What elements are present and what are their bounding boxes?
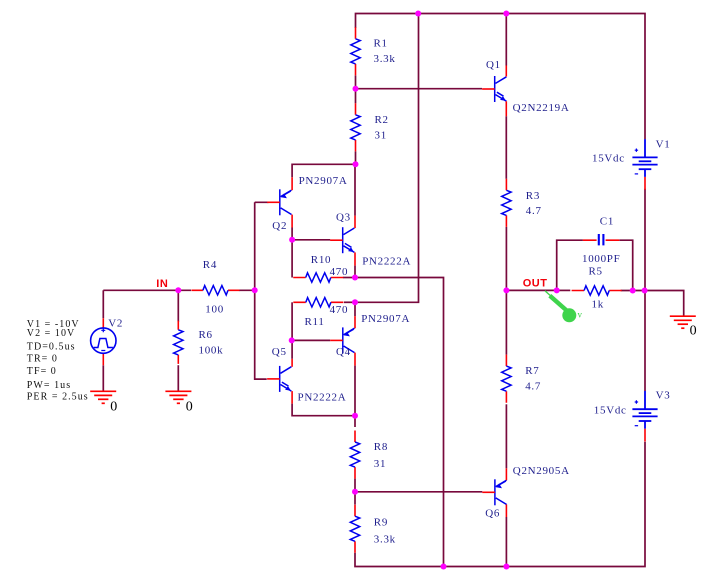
transistor Q4 PN2907A	[330, 327, 354, 353]
wire node492 to Q6 base	[355, 491, 482, 493]
svg-text:470: 470	[330, 304, 349, 316]
junction	[503, 11, 509, 17]
svg-text:3.3k: 3.3k	[374, 53, 396, 65]
junction	[352, 299, 358, 305]
wire node to Q1 base	[356, 88, 483, 90]
svg-text:0: 0	[690, 323, 697, 338]
wire OUT node to C1/R5 node	[506, 289, 556, 291]
svg-text:15Vdc: 15Vdc	[594, 405, 627, 417]
svg-text:TF= 0: TF= 0	[27, 366, 57, 377]
transistor Q1 Q2N2219A	[482, 76, 506, 102]
svg-text:Q3: Q3	[336, 211, 351, 223]
svg-text:R7: R7	[525, 365, 539, 377]
transistor Q5 PN2222A	[267, 366, 291, 392]
svg-text:OUT: OUT	[523, 278, 548, 290]
svg-text:4.7: 4.7	[526, 205, 542, 217]
wire R3 bottom to OUT node	[505, 227, 507, 291]
svg-text:V1: V1	[656, 139, 671, 151]
svg-text:Q2N2905A: Q2N2905A	[513, 465, 570, 477]
junction	[353, 86, 359, 92]
wire Q3 collector from node164	[354, 164, 356, 215]
source V2	[91, 318, 116, 365]
svg-text:PN2907A: PN2907A	[299, 175, 348, 187]
junction	[353, 161, 359, 167]
svg-text:IN: IN	[156, 278, 168, 290]
svg-text:V3: V3	[656, 390, 671, 402]
wire Q4 collector down to node415	[354, 366, 356, 416]
junction	[441, 564, 447, 570]
wire R9 top	[354, 492, 356, 505]
resistor R3	[502, 179, 511, 227]
pin Q4 collector	[354, 353, 356, 366]
pin Q5 emitter	[291, 391, 293, 404]
junction	[175, 287, 181, 293]
wire R10 right to node	[343, 277, 355, 279]
pin Q2 collector	[291, 215, 293, 228]
svg-text:31: 31	[374, 458, 386, 470]
svg-text:TR= 0: TR= 0	[27, 354, 58, 365]
probe V marker	[545, 291, 583, 323]
wire node240 down to R10	[291, 240, 293, 278]
junction	[554, 287, 560, 293]
wire Q6 collector to bottom rail	[505, 517, 507, 567]
wire Q2 base vertical to Q5 base	[255, 202, 269, 379]
svg-text:0: 0	[186, 400, 193, 415]
wire R4 to left vertical	[239, 289, 255, 291]
wire right rail between V1 and V3	[644, 189, 646, 391]
resistor R2	[351, 103, 360, 151]
svg-text:R11: R11	[305, 316, 325, 328]
pin Q6 emitter	[505, 468, 507, 480]
pin Q3 emitter	[354, 252, 356, 265]
pin Q3 collector	[354, 216, 356, 229]
wire Q6 emitter up to R7	[505, 404, 507, 468]
resistor R8	[350, 431, 359, 479]
svg-text:PW= 1us: PW= 1us	[27, 380, 71, 391]
wire R6 bottom to ground	[177, 365, 179, 391]
wire node302 to Q4 emitter	[354, 302, 356, 316]
resistor R9	[350, 505, 359, 553]
wire R2 bottom to node164	[355, 151, 357, 164]
junction	[503, 564, 509, 570]
ground	[670, 316, 696, 328]
junction	[252, 287, 258, 293]
svg-text:Q4: Q4	[336, 346, 351, 358]
svg-text:R4: R4	[203, 259, 217, 271]
wire node164 to Q2 emitter	[292, 164, 355, 177]
svg-text:v: v	[578, 310, 583, 320]
wire C1 right to R5 right node	[619, 240, 632, 290]
svg-text:R1: R1	[374, 38, 388, 50]
wire node277 right and down to bottom rail	[355, 278, 444, 567]
resistor R10	[293, 273, 343, 282]
wire R5 left stub	[557, 289, 571, 291]
svg-text:R10: R10	[311, 254, 331, 266]
junction	[289, 237, 295, 243]
svg-text:Q6: Q6	[485, 508, 500, 520]
resistor R1	[351, 27, 360, 75]
svg-text:100: 100	[205, 304, 224, 316]
pin Q1 collector	[505, 66, 507, 77]
svg-text:PN2222A: PN2222A	[298, 391, 347, 403]
wire R5 right to rail and ground	[621, 291, 684, 317]
wire node340 to Q4 base	[292, 339, 331, 341]
svg-text:V2: V2	[108, 317, 123, 329]
svg-text:1000PF: 1000PF	[582, 253, 620, 265]
pin Q1 emitter	[505, 101, 507, 116]
resistor R11	[293, 298, 343, 307]
junction	[630, 288, 636, 294]
wire R8 to node492	[354, 479, 356, 492]
junction	[415, 11, 421, 17]
svg-text:3.3k: 3.3k	[374, 534, 396, 546]
svg-text:R6: R6	[199, 329, 213, 341]
wire R9 bottom + bottom rail	[355, 442, 645, 567]
resistor R5	[572, 286, 622, 295]
transistor Q3 PN2222A	[330, 227, 354, 253]
wire top rail	[356, 14, 646, 140]
pin Q2 emitter	[291, 177, 293, 190]
ground	[165, 391, 191, 403]
svg-text:Q2: Q2	[272, 220, 287, 232]
wire V2 top	[102, 290, 104, 318]
svg-text:PN2222A: PN2222A	[362, 255, 411, 267]
svg-text:Q1: Q1	[486, 59, 501, 71]
svg-text:R3: R3	[526, 190, 540, 202]
svg-text:4.7: 4.7	[525, 381, 541, 393]
junction	[503, 287, 509, 293]
wire V2 bottom to ground	[102, 365, 104, 391]
ground	[90, 391, 116, 403]
transistor Q2 PN2907A	[267, 189, 291, 215]
junction	[289, 337, 295, 343]
svg-text:0: 0	[110, 400, 117, 415]
svg-text:100k: 100k	[199, 344, 224, 356]
svg-text:C1: C1	[600, 215, 614, 227]
wire OUT node down to R7	[505, 290, 507, 354]
junction	[352, 275, 358, 281]
svg-text:R9: R9	[374, 517, 388, 529]
wire Q5 collector to node340	[291, 340, 293, 358]
svg-text:Q2N2219A: Q2N2219A	[513, 102, 570, 114]
resistor R6	[174, 321, 183, 364]
wire Q3 emitter to node277	[354, 266, 356, 278]
svg-text:PER = 2.5us: PER = 2.5us	[27, 392, 89, 403]
svg-text:V2 = 10V: V2 = 10V	[27, 328, 75, 339]
wire Q1 emitter down to R3	[505, 116, 507, 179]
svg-text:R2: R2	[375, 114, 389, 126]
junction	[352, 413, 358, 419]
wire IN horizontal	[103, 289, 191, 291]
capacitor C1	[583, 234, 619, 245]
svg-text:Q5: Q5	[272, 346, 287, 358]
svg-text:R5: R5	[589, 266, 603, 278]
wire R1 bottom to node	[355, 76, 357, 104]
wire R11 right to node302	[344, 301, 355, 303]
wire node240 to Q3 base	[292, 239, 330, 241]
svg-text:31: 31	[375, 129, 387, 141]
pin Q4 emitter	[354, 316, 356, 328]
svg-text:470: 470	[330, 266, 349, 278]
svg-text:R8: R8	[374, 441, 388, 453]
wire C1 branch	[557, 240, 583, 290]
wire R11 left elbow to node340	[291, 302, 293, 340]
wire top dot down x418 to node302	[355, 14, 419, 303]
junction	[642, 288, 648, 294]
source V3	[632, 391, 657, 429]
wire Q5 emitter to node415	[292, 404, 355, 416]
pin Q6 collector	[505, 505, 507, 518]
wire Q1 collector drop	[505, 14, 507, 66]
transistor Q6 Q2N2905A	[482, 479, 506, 505]
svg-text:TD=0.5us: TD=0.5us	[27, 341, 76, 352]
wire node415 to R8	[354, 416, 356, 427]
svg-text:PN2907A: PN2907A	[361, 313, 410, 325]
junction	[352, 489, 358, 495]
wire Q2 collector to node240	[291, 228, 293, 240]
resistor R7	[502, 355, 511, 403]
pin Q5 collector	[291, 359, 293, 367]
wire R6 top	[177, 290, 179, 322]
resistor R4	[191, 286, 239, 295]
svg-text:15Vdc: 15Vdc	[592, 153, 625, 165]
svg-text:1k: 1k	[592, 299, 604, 311]
source V1	[632, 139, 657, 177]
